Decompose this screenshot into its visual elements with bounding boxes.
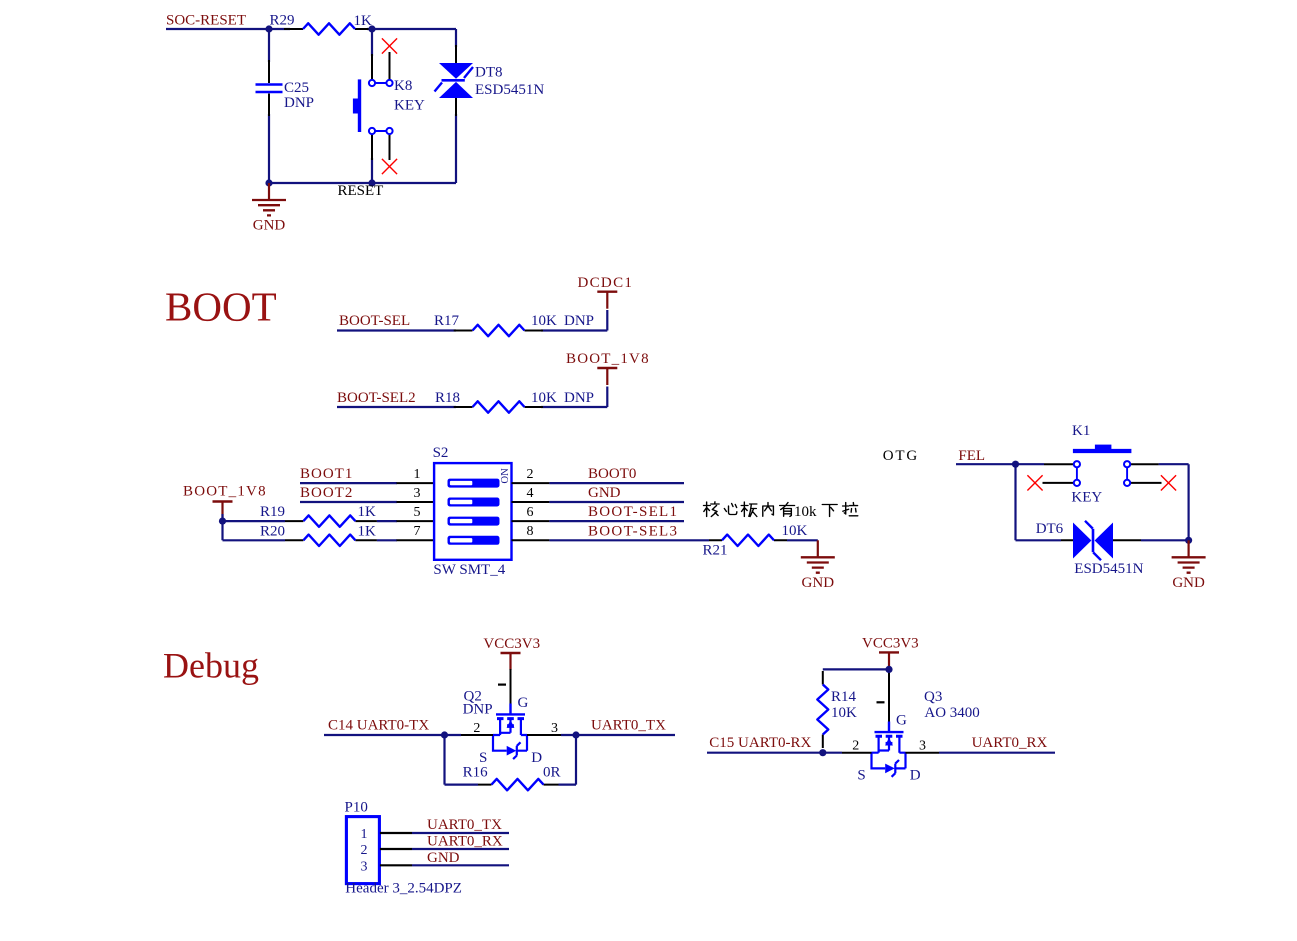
svg-text:BOOT_1V8: BOOT_1V8 — [183, 484, 267, 500]
svg-text:10K: 10K — [531, 390, 557, 406]
svg-text:DT8: DT8 — [475, 65, 503, 81]
svg-text:DNP: DNP — [564, 313, 594, 329]
svg-text:DNP: DNP — [564, 390, 594, 406]
svg-text:3: 3 — [551, 721, 558, 736]
svg-text:2: 2 — [852, 739, 859, 754]
svg-text:UART0_TX: UART0_TX — [591, 718, 666, 734]
svg-text:BOOT-SEL3: BOOT-SEL3 — [588, 523, 678, 539]
svg-text:R14: R14 — [831, 689, 857, 705]
svg-text:2: 2 — [473, 721, 480, 736]
svg-text:G: G — [518, 695, 529, 711]
svg-text:1K: 1K — [354, 13, 373, 29]
svg-text:2: 2 — [527, 467, 534, 482]
svg-text:3: 3 — [919, 739, 926, 754]
svg-text:C25: C25 — [284, 80, 309, 96]
svg-text:6: 6 — [527, 505, 534, 520]
svg-text:DT6: DT6 — [1036, 521, 1064, 537]
svg-text:DCDC1: DCDC1 — [578, 275, 634, 291]
svg-text:Q3: Q3 — [924, 689, 942, 705]
svg-text:Debug: Debug — [163, 646, 259, 686]
svg-text:R17: R17 — [434, 313, 460, 329]
svg-text:4: 4 — [527, 486, 534, 501]
svg-text:Header 3_2.54DPZ: Header 3_2.54DPZ — [345, 881, 462, 897]
svg-text:D: D — [910, 768, 921, 784]
svg-text:8: 8 — [527, 524, 534, 539]
svg-text:1: 1 — [361, 827, 368, 842]
svg-text:3: 3 — [361, 859, 368, 874]
svg-text:AO 3400: AO 3400 — [924, 705, 979, 721]
svg-text:VCC3V3: VCC3V3 — [862, 636, 919, 652]
svg-text:1K: 1K — [358, 504, 377, 520]
svg-text:BOOT2: BOOT2 — [300, 485, 353, 501]
svg-text:ESD5451N: ESD5451N — [475, 82, 544, 98]
svg-text:GND: GND — [588, 485, 621, 501]
svg-text:BOOT1: BOOT1 — [300, 466, 353, 482]
svg-text:BOOT-SEL1: BOOT-SEL1 — [588, 504, 678, 520]
svg-text:1K: 1K — [358, 523, 377, 539]
svg-text:P10: P10 — [345, 800, 368, 816]
svg-text:BOOT_1V8: BOOT_1V8 — [566, 351, 650, 367]
svg-text:5: 5 — [414, 505, 421, 520]
svg-text:10K: 10K — [531, 313, 557, 329]
svg-text:S: S — [857, 768, 865, 784]
svg-text:10K: 10K — [831, 705, 857, 721]
svg-text:GND: GND — [427, 850, 460, 866]
svg-text:S2: S2 — [433, 445, 449, 461]
svg-text:2: 2 — [361, 843, 368, 858]
svg-text:BOOT-SEL: BOOT-SEL — [339, 313, 410, 329]
svg-text:R16: R16 — [463, 765, 489, 781]
svg-text:KEY: KEY — [1071, 490, 1102, 506]
svg-text:K1: K1 — [1072, 423, 1090, 439]
svg-text:UART0_RX: UART0_RX — [427, 834, 503, 850]
svg-text:BOOT0: BOOT0 — [588, 466, 636, 482]
svg-text:OTG: OTG — [883, 448, 919, 464]
svg-text:UART0_TX: UART0_TX — [427, 817, 502, 833]
svg-text:3: 3 — [414, 486, 421, 501]
svg-text:10K: 10K — [782, 523, 808, 539]
svg-text:G: G — [896, 713, 907, 729]
svg-text:FEL: FEL — [958, 448, 985, 464]
svg-text:ESD5451N: ESD5451N — [1074, 561, 1143, 577]
svg-text:DNP: DNP — [463, 702, 493, 718]
svg-text:R29: R29 — [270, 13, 295, 29]
svg-text:K8: K8 — [394, 78, 412, 94]
svg-text:BOOT-SEL2: BOOT-SEL2 — [337, 390, 416, 406]
svg-text:DNP: DNP — [284, 95, 314, 111]
svg-text:BOOT: BOOT — [165, 284, 277, 330]
svg-text:R21: R21 — [703, 543, 728, 559]
svg-text:SW SMT_4: SW SMT_4 — [433, 562, 505, 578]
svg-text:1: 1 — [414, 467, 421, 482]
svg-text:RESET: RESET — [338, 183, 384, 199]
svg-text:R18: R18 — [435, 390, 460, 406]
svg-text:ON: ON — [500, 468, 511, 484]
svg-text:C15 UART0-RX: C15 UART0-RX — [709, 735, 811, 751]
svg-text:UART0_RX: UART0_RX — [972, 735, 1048, 751]
svg-text:R20: R20 — [260, 523, 285, 539]
svg-text:VCC3V3: VCC3V3 — [483, 636, 540, 652]
svg-text:R19: R19 — [260, 504, 285, 520]
svg-text:7: 7 — [414, 524, 421, 539]
svg-text:SOC-RESET: SOC-RESET — [166, 13, 246, 29]
svg-text:D: D — [531, 750, 542, 766]
svg-text:10k: 10k — [794, 504, 817, 520]
svg-text:C14 UART0-TX: C14 UART0-TX — [328, 718, 429, 734]
svg-text:KEY: KEY — [394, 98, 425, 114]
svg-text:0R: 0R — [543, 765, 561, 781]
